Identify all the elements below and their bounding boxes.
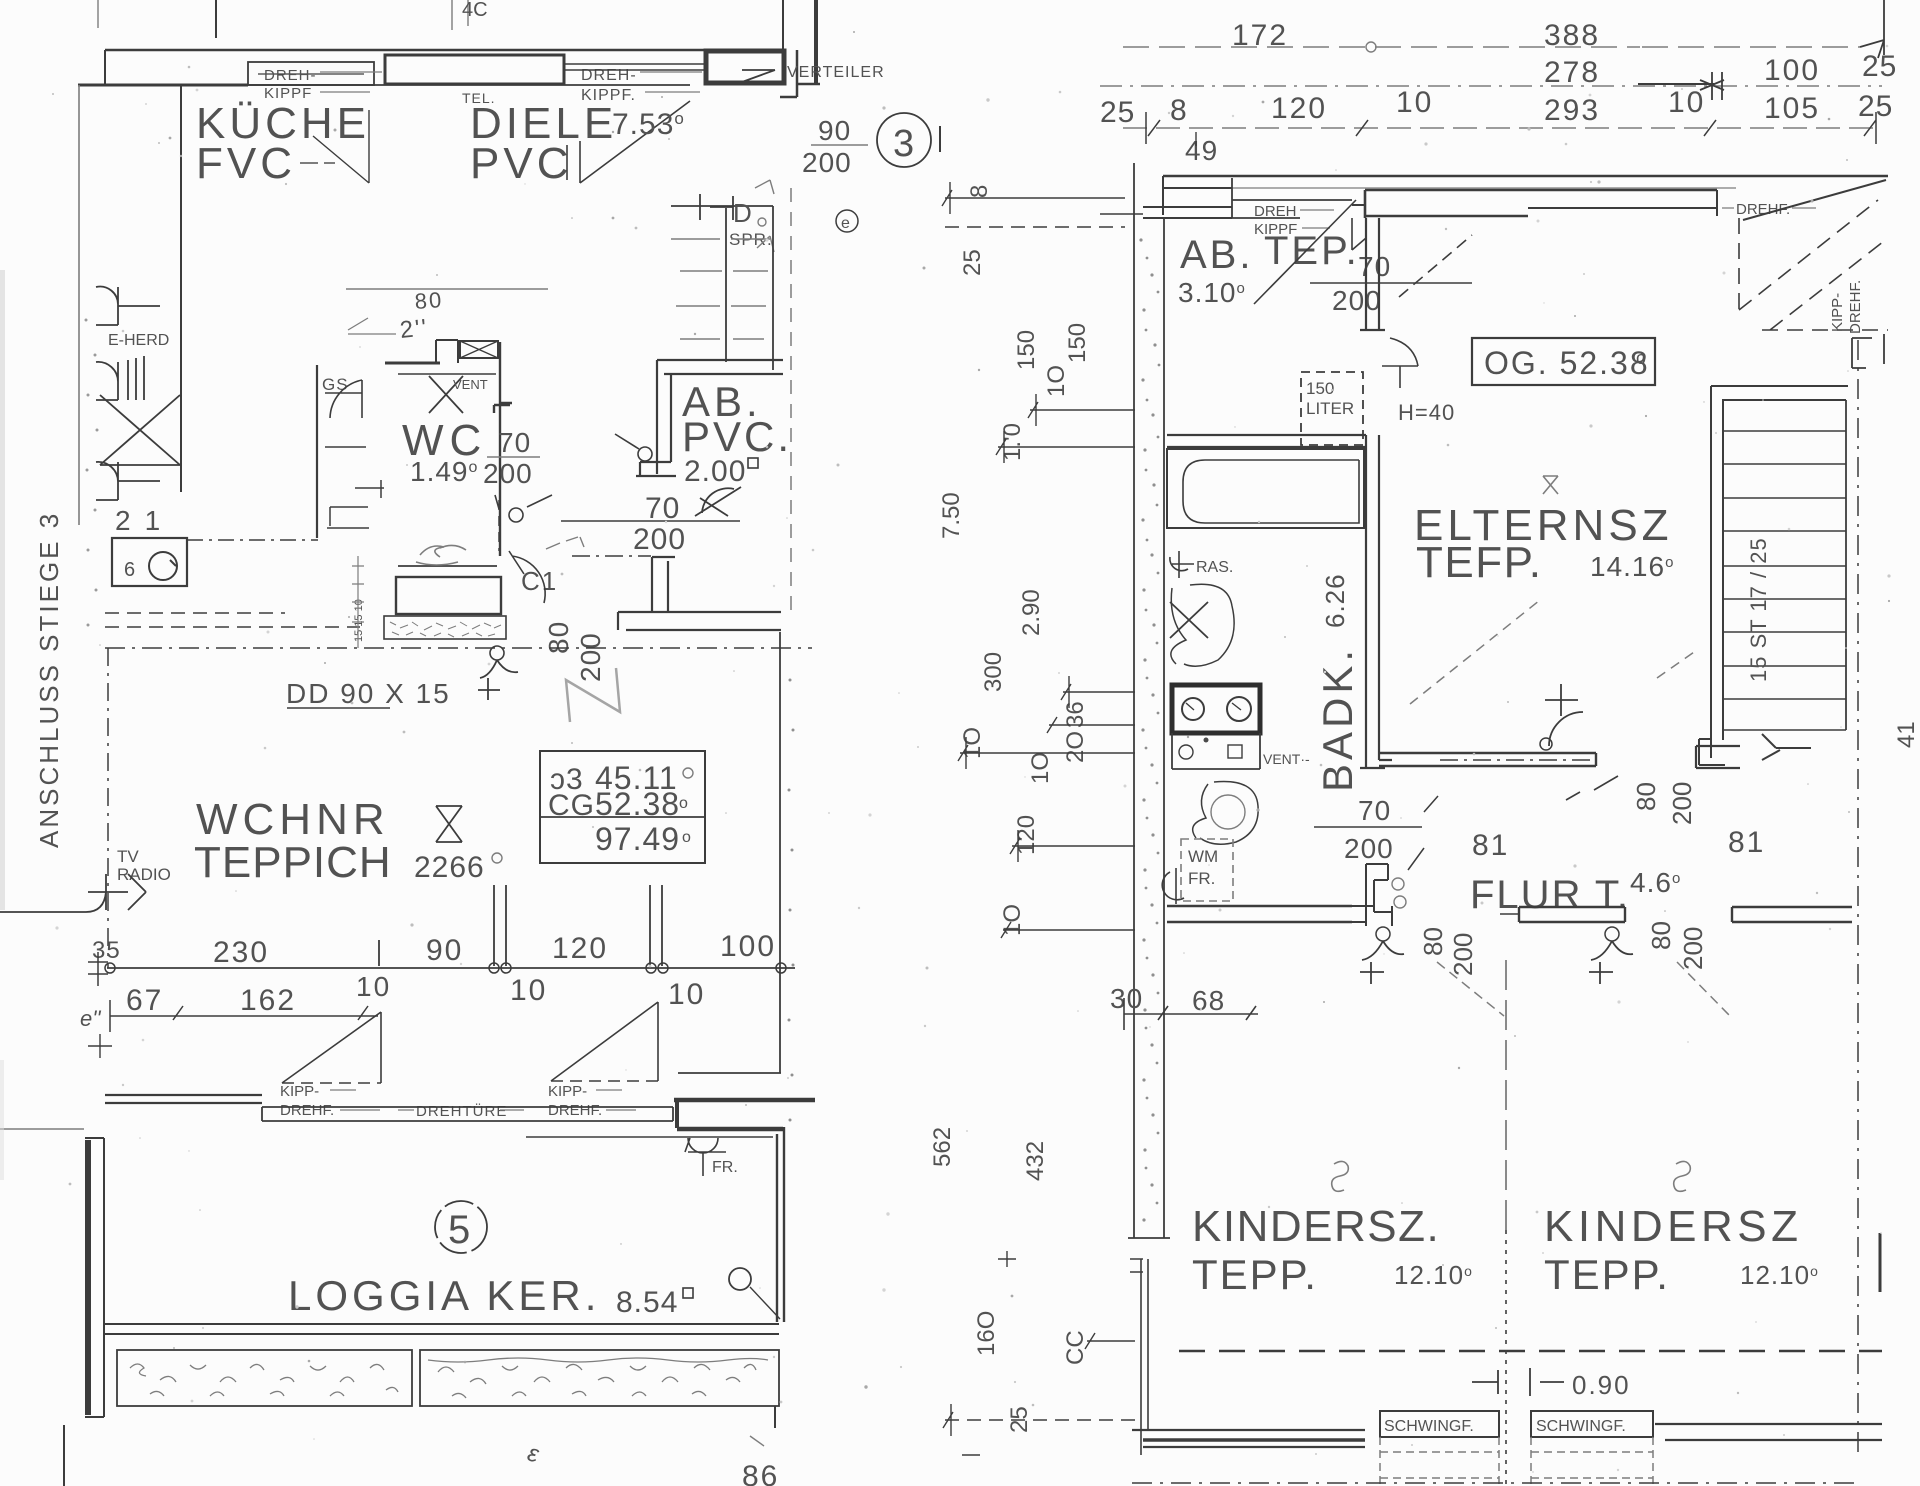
shaft dashes	[671, 239, 770, 339]
svg-text:10: 10	[668, 978, 705, 1011]
svg-text:49: 49	[1185, 135, 1218, 166]
svg-text:432: 432	[1022, 1141, 1049, 1181]
svg-text:15 15 10: 15 15 10	[353, 599, 365, 642]
faint marks above diele	[452, 0, 468, 30]
svg-text:DREHF.: DREHF.	[1847, 280, 1864, 334]
svg-text:4C: 4C	[462, 0, 488, 21]
wall band end tick	[1128, 1237, 1170, 1239]
right outer dashdot	[1857, 340, 1859, 1460]
svg-text:8: 8	[1170, 94, 1187, 127]
svg-text:PVC: PVC	[470, 139, 572, 188]
wall top right corner verticals	[782, 0, 784, 50]
svg-text:AB.: AB.	[1180, 233, 1253, 277]
window diele top	[385, 55, 564, 84]
label TV RADIO	[117, 847, 171, 884]
svg-text:25: 25	[1100, 96, 1135, 129]
top wall lower full line	[1163, 187, 1736, 189]
loggia right stub	[774, 1406, 776, 1428]
svg-text:16O: 16O	[973, 1311, 1000, 1356]
svg-text:2.00: 2.00	[684, 455, 746, 488]
dashdot corridor	[572, 555, 651, 557]
svg-text:120: 120	[1271, 92, 1327, 125]
svg-text:80: 80	[1646, 921, 1676, 950]
svg-text:105: 105	[1764, 92, 1820, 125]
AB wall top	[657, 360, 783, 374]
svg-text:36: 36	[1062, 701, 1089, 728]
ab right wall	[1360, 218, 1385, 330]
left wall stipple	[85, 319, 99, 627]
svg-text:70: 70	[645, 492, 680, 525]
bath right wall	[1360, 435, 1392, 768]
node e circled small	[836, 210, 858, 232]
wall stub top left vertical	[105, 0, 216, 85]
svg-text:100: 100	[1764, 54, 1820, 87]
fridge arc	[96, 462, 160, 500]
closet shelves	[1723, 431, 1846, 730]
svg-text:162: 162	[240, 984, 296, 1017]
wc right wall	[494, 342, 512, 556]
svg-text:e'': e''	[80, 1006, 101, 1031]
80 200 rotated flur right	[1646, 921, 1676, 950]
FR symbol	[685, 1138, 726, 1176]
svg-text:5: 5	[448, 1208, 470, 1252]
svg-text:4.6o: 4.6o	[1630, 867, 1681, 898]
wall piece right of door	[1696, 746, 1740, 768]
corner window diagonal	[1743, 180, 1886, 220]
wc entry door dash	[498, 500, 500, 551]
flur right wall	[1732, 907, 1852, 922]
80 200 rotated entry	[543, 621, 574, 654]
AB door circle	[638, 447, 652, 461]
X mark wohnr	[436, 806, 462, 842]
line to left margin	[0, 1128, 84, 1130]
svg-text:150: 150	[1306, 379, 1334, 398]
AB wall left vertical	[657, 360, 671, 474]
dashed balcony line	[1179, 1350, 1882, 1353]
loggia window sill band	[262, 1107, 673, 1121]
15 ST 17 25 rotated	[1746, 537, 1771, 682]
svg-text:30: 30	[1110, 983, 1143, 1014]
svg-text:GS: GS	[322, 375, 349, 394]
closet right rail	[1845, 400, 1847, 730]
svg-text:200: 200	[1448, 933, 1478, 976]
door C1 swing	[509, 551, 545, 603]
svg-text:8.54: 8.54	[616, 1286, 678, 1319]
left dim column rotated labels	[929, 185, 1091, 1433]
loggia left wall	[85, 1140, 91, 1415]
right margin faint mark	[1893, 721, 1920, 748]
small lines left of wc	[325, 447, 384, 528]
wc inner top line	[398, 373, 496, 375]
svg-text:PVC.: PVC.	[682, 413, 792, 460]
bath top wall	[1167, 435, 1366, 447]
dim row2 line	[110, 1015, 378, 1017]
svg-text:150: 150	[1064, 323, 1091, 363]
0.90 marks	[1472, 1368, 1564, 1396]
wohnr right boundary solid	[779, 632, 781, 1073]
OG box	[1472, 338, 1655, 385]
svg-text:230: 230	[213, 936, 269, 969]
bottom wall right part	[1655, 1424, 1882, 1440]
shaft walls	[726, 206, 773, 370]
svg-text:68: 68	[1192, 985, 1225, 1016]
svg-text:15 ST 17 / 25: 15 ST 17 / 25	[1746, 537, 1771, 682]
dishwasher X box	[100, 395, 180, 465]
closet swing dash	[1410, 600, 1697, 704]
svg-text:VENT·-: VENT·-	[1263, 751, 1310, 767]
boiler door arc	[1382, 338, 1418, 388]
svg-text:388: 388	[1544, 19, 1600, 52]
svg-text:KIPP-: KIPP-	[548, 1083, 587, 1100]
schwingf box left	[1380, 1411, 1499, 1437]
svg-text:7.53o: 7.53o	[612, 108, 685, 141]
label DREH KIPPF kitchen window	[264, 67, 317, 102]
svg-text:o: o	[682, 829, 691, 846]
top dim line2	[1100, 85, 1882, 87]
top dim line1	[1123, 46, 1640, 48]
svg-text:200: 200	[802, 147, 852, 178]
svg-text:TEPPICH: TEPPICH	[194, 838, 392, 887]
svg-text:DREH-: DREH-	[264, 67, 317, 84]
svg-text:70: 70	[498, 427, 531, 458]
closet top	[1711, 386, 1848, 758]
svg-text:VENT: VENT	[453, 377, 488, 392]
left margin smudge	[0, 270, 5, 910]
window ab	[1232, 178, 1352, 218]
svg-text:E-HERD: E-HERD	[108, 332, 169, 349]
svg-text:ε: ε	[525, 1439, 542, 1468]
vent X mark	[429, 376, 463, 413]
corridor strip bottom wall	[678, 1072, 781, 1074]
loggia swing triangle right	[551, 1002, 658, 1081]
svg-text:200: 200	[1344, 833, 1394, 864]
svg-text:0.90: 0.90	[1572, 1370, 1631, 1400]
svg-text:D: D	[733, 198, 752, 228]
svg-text:2266: 2266	[414, 851, 485, 884]
sink unit symbol	[96, 356, 144, 400]
svg-text:1.49o: 1.49o	[410, 456, 478, 487]
tiny rotated dims left of counter	[353, 599, 365, 642]
plan top wall	[1163, 175, 1888, 178]
svg-text:FR.: FR.	[712, 1159, 738, 1176]
loggia right wall	[777, 1127, 784, 1322]
svg-text:10: 10	[510, 974, 547, 1007]
BADK rotated label	[1314, 646, 1361, 792]
loggia swing triangle left	[282, 1012, 381, 1083]
svg-text:SCHWINGF.: SCHWINGF.	[1536, 1418, 1626, 1435]
e mark flur	[1392, 878, 1404, 890]
svg-text:80: 80	[414, 287, 444, 314]
central window band	[1365, 190, 1717, 218]
wc top wall	[385, 362, 440, 365]
svg-text:70: 70	[1358, 795, 1391, 826]
svg-text:2'': 2''	[399, 314, 430, 344]
svg-text:RADIO: RADIO	[117, 865, 171, 884]
svg-text:12.10o: 12.10o	[1740, 1260, 1819, 1290]
loggia step wall vertical	[675, 1100, 679, 1128]
faded line above wc	[346, 288, 548, 290]
flur pier	[1352, 864, 1392, 926]
svg-text:RAS.: RAS.	[1196, 559, 1233, 576]
svg-text:DREHF.: DREHF.	[548, 1102, 602, 1119]
flur bottom wall mid	[1519, 907, 1625, 922]
bottom dashdot	[1132, 1482, 1860, 1484]
svg-text:6: 6	[124, 559, 135, 581]
svg-text:CG: CG	[548, 789, 595, 822]
door swing kitchen	[313, 110, 369, 183]
loggia step wall upper	[674, 1098, 815, 1103]
svg-text:1.'0: 1.'0	[999, 423, 1026, 461]
WM FR box	[1181, 839, 1233, 901]
svg-text:BADK.: BADK.	[1314, 646, 1361, 792]
svg-text:TEPP.: TEPP.	[1192, 1251, 1318, 1298]
corner bracket	[1852, 334, 1884, 368]
e tick left	[88, 952, 108, 986]
svg-text:25: 25	[959, 249, 986, 276]
svg-text:1O: 1O	[1027, 752, 1054, 784]
sink circle C	[149, 552, 177, 580]
svg-text:81: 81	[1472, 829, 1509, 862]
closet foot	[1699, 734, 1811, 765]
svg-text:KIPP-: KIPP-	[1829, 293, 1846, 332]
svg-text:TEFP.: TEFP.	[1416, 538, 1543, 587]
circled 3	[877, 113, 931, 167]
svg-text:H=40: H=40	[1398, 400, 1455, 425]
bottom wall left part	[1132, 1430, 1365, 1447]
svg-text:C1: C1	[521, 566, 558, 596]
svg-text:21: 21	[115, 505, 174, 536]
toilet	[1193, 782, 1258, 845]
wc window with X	[460, 341, 498, 358]
svg-text:o: o	[679, 795, 688, 812]
svg-text:200: 200	[1667, 782, 1697, 825]
svg-text:OG. 52.38: OG. 52.38	[1484, 345, 1650, 381]
window kitchen top	[248, 62, 374, 85]
door swing diele right	[580, 101, 690, 183]
left wall stipple band	[1134, 163, 1164, 1238]
counter top line	[398, 565, 497, 567]
wall top inner left	[78, 84, 248, 87]
svg-text:1O: 1O	[999, 904, 1026, 936]
wohnr left dashdot	[107, 648, 109, 968]
svg-text:10: 10	[1396, 86, 1433, 119]
svg-text:WM: WM	[1188, 847, 1218, 866]
svg-text:3: 3	[893, 123, 914, 165]
long dashdot hall	[364, 647, 812, 649]
GS door arc	[325, 380, 362, 418]
kitchen left wall inner	[180, 85, 182, 492]
svg-text:100: 100	[720, 930, 776, 963]
svg-text:2.90: 2.90	[1018, 589, 1045, 636]
faded scribble 80	[414, 287, 444, 314]
schwingf box right	[1531, 1411, 1653, 1437]
verteiler cabinet	[706, 51, 784, 83]
right plan group	[929, 0, 1897, 1485]
svg-text:200: 200	[483, 458, 533, 489]
TV antenna symbol	[0, 874, 146, 912]
svg-text:e: e	[841, 215, 850, 232]
svg-text:VERTEILER: VERTEILER	[787, 64, 885, 81]
washbasin RAS	[1170, 551, 1194, 578]
right wall stub	[1879, 1233, 1882, 1292]
verteiler switch symbol	[742, 70, 775, 82]
entry pier	[652, 557, 675, 612]
svg-text:7.50: 7.50	[938, 492, 965, 539]
svg-text:70: 70	[1358, 251, 1391, 282]
right boundary stipple	[788, 679, 795, 1122]
dashdot from cabinet	[187, 539, 318, 541]
svg-text:80: 80	[1418, 927, 1448, 956]
left plan group	[0, 0, 940, 1486]
top wall lower segments	[1163, 176, 1232, 215]
left wall lower	[1130, 1259, 1148, 1455]
upper right dashdot	[790, 188, 792, 613]
svg-text:52.38: 52.38	[595, 786, 680, 822]
faded x elternsz	[1543, 476, 1558, 494]
svg-text:120: 120	[1013, 815, 1040, 855]
svg-text:300: 300	[980, 652, 1007, 692]
svg-text:80: 80	[1631, 782, 1661, 811]
svg-text:KINDERSZ: KINDERSZ	[1544, 1202, 1802, 1251]
svg-text:86: 86	[742, 1460, 779, 1486]
faded scribble 5	[416, 545, 466, 565]
wohnr top dashdot	[105, 647, 364, 649]
svg-text:10: 10	[356, 971, 391, 1002]
svg-text:TV: TV	[117, 847, 139, 866]
svg-text:150: 150	[1013, 330, 1040, 370]
svg-text:120: 120	[552, 932, 608, 965]
svg-text:200: 200	[1332, 285, 1382, 316]
svg-text:1O: 1O	[1043, 365, 1070, 397]
svg-text:DD 90 X 15: DD 90 X 15	[286, 678, 451, 709]
svg-text:DREHTÜRE: DREHTÜRE	[416, 1102, 507, 1120]
circled 5 loggia	[435, 1201, 487, 1253]
svg-text:FLUR T.: FLUR T.	[1470, 873, 1630, 917]
wall top outer	[105, 49, 781, 52]
svg-text:SCHWINGF.: SCHWINGF.	[1384, 1418, 1474, 1435]
flur door fork right	[1605, 927, 1619, 941]
svg-text:DREH: DREH	[1254, 203, 1297, 220]
wc door post	[436, 340, 458, 363]
hatch squiggles	[130, 1358, 768, 1398]
window sill right of diele	[564, 64, 704, 70]
cooker box	[1172, 685, 1260, 733]
E-HERD stove symbol	[96, 287, 160, 325]
svg-text:200: 200	[633, 523, 686, 556]
kindersz door swings dashed	[1437, 962, 1730, 1016]
faded N mark	[566, 668, 620, 722]
corner dashed swing	[1739, 200, 1888, 330]
X bath	[1170, 602, 1208, 638]
svg-text:DREHF.: DREHF.	[280, 1102, 334, 1119]
elternsz bottom wall	[1379, 753, 1596, 766]
svg-text:KINDERSZ.: KINDERSZ.	[1192, 1202, 1440, 1251]
left dim column tick lines	[942, 182, 1135, 1455]
bathtub	[1167, 449, 1364, 528]
partition between kindersz	[1505, 960, 1507, 1230]
corner arrow top right	[1860, 0, 1884, 58]
svg-text:25: 25	[1862, 50, 1897, 83]
svg-text:278: 278	[1544, 56, 1600, 89]
svg-text:200: 200	[1678, 927, 1708, 970]
svg-text:90: 90	[426, 934, 463, 967]
svg-text:14.16o: 14.16o	[1590, 551, 1674, 582]
circle o loggia	[729, 1268, 751, 1290]
loggia north wall left	[105, 1095, 262, 1103]
svg-text:KIPP-: KIPP-	[280, 1083, 319, 1100]
svg-text:TEP.: TEP.	[1264, 229, 1360, 273]
left outer wall kitchen	[78, 85, 80, 525]
svg-text:TEPP.: TEPP.	[1544, 1251, 1670, 1298]
svg-text:CC: CC	[1062, 1330, 1089, 1365]
80 200 rotated elternsz	[1631, 782, 1661, 811]
kitchen-wc wall	[316, 365, 318, 538]
svg-text:3.10o: 3.10o	[1178, 277, 1246, 308]
svg-text:LOGGIA KER.: LOGGIA KER.	[288, 1272, 600, 1319]
wc entry circle and diagonal	[509, 508, 523, 522]
flur door fork left	[1376, 927, 1390, 941]
svg-text:562: 562	[929, 1127, 956, 1167]
svg-text:8: 8	[966, 185, 993, 198]
ab door swings	[1254, 200, 1366, 304]
dim 90/200 top middle	[802, 115, 852, 178]
loggia floor line	[105, 1324, 779, 1334]
top dim line3	[1123, 127, 1882, 129]
svg-text:200: 200	[575, 632, 606, 682]
svg-text:LITER: LITER	[1306, 399, 1354, 418]
svg-text:35: 35	[92, 937, 121, 964]
faded 8 left	[1332, 1161, 1349, 1191]
bath bottom wall	[1167, 906, 1352, 922]
svg-text:2O: 2O	[1062, 731, 1089, 763]
area table box	[540, 751, 705, 863]
loggia step wall lower	[677, 1127, 783, 1132]
dim line main	[107, 967, 795, 969]
svg-text:6.26: 6.26	[1320, 573, 1350, 628]
label KIPP DREHF left	[280, 1083, 334, 1119]
svg-text:FR.: FR.	[1188, 869, 1215, 888]
AB wall foot	[636, 462, 676, 476]
faded 8 right	[1674, 1161, 1691, 1191]
loggia sill hatched left	[117, 1350, 412, 1406]
kipp drehf rotated corner	[1829, 280, 1864, 334]
label DREH KIPPF diele	[581, 67, 637, 104]
elternsz door swing	[1545, 684, 1583, 746]
svg-text:80: 80	[543, 621, 574, 654]
anschluss stiege rotated	[34, 511, 64, 848]
svg-text:FVC: FVC	[196, 139, 296, 188]
bottom left wall stub	[63, 1425, 65, 1486]
svg-text:41: 41	[1893, 721, 1920, 748]
lamp symbol	[490, 646, 504, 660]
svg-text:67: 67	[126, 984, 163, 1017]
svg-text:293: 293	[1544, 94, 1600, 127]
counter box	[396, 577, 501, 614]
svg-text:90: 90	[818, 115, 851, 146]
cooker sub box	[1172, 733, 1260, 769]
loggia sill hatched right	[420, 1350, 779, 1406]
svg-text:12.10o: 12.10o	[1394, 1260, 1473, 1290]
top left wall piece	[1143, 207, 1232, 218]
entry door swing symbol	[695, 487, 741, 516]
window ticks wohnr south	[379, 885, 662, 966]
sink cabinet	[112, 538, 187, 586]
counter hatch band	[384, 616, 506, 639]
wall extension left	[1100, 213, 1143, 215]
shaft K-D symbol	[671, 194, 773, 220]
label KIPP DREHF right	[548, 1083, 602, 1119]
svg-text:97.49: 97.49	[595, 821, 680, 857]
